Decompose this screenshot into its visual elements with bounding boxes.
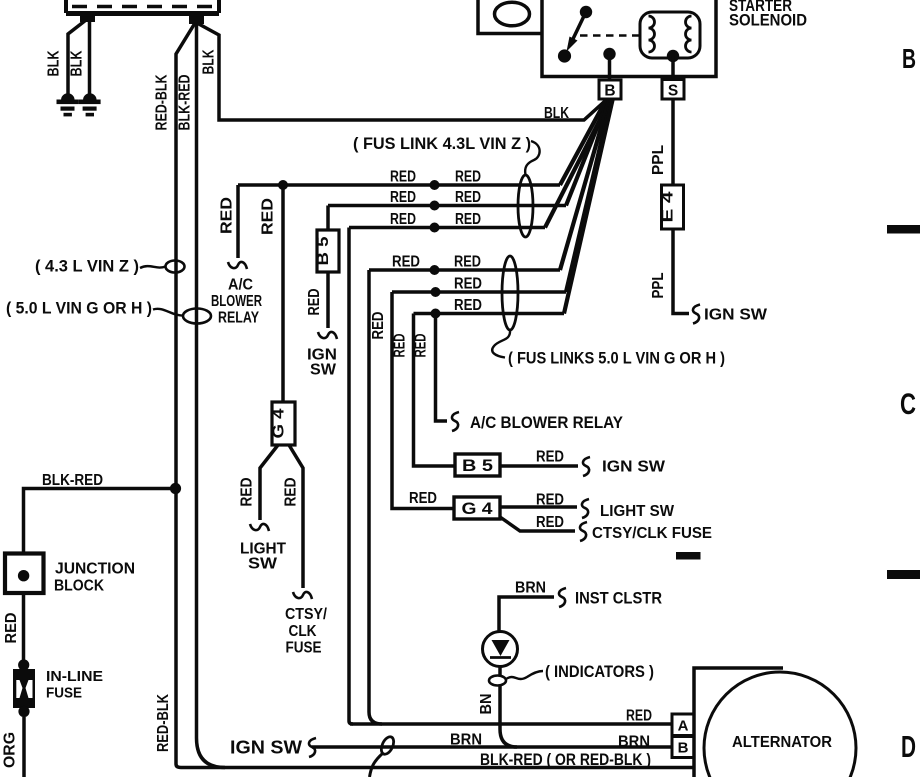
svg-text:( INDICATORS ): ( INDICATORS )	[545, 663, 654, 681]
fuse box G4 first	[272, 402, 295, 445]
battery terminal stub left	[80, 11, 95, 22]
svg-text:( FUS LINK 4.3L VIN Z ): ( FUS LINK 4.3L VIN Z )	[353, 134, 531, 153]
svg-text:RED: RED	[454, 297, 482, 314]
svg-text:RED: RED	[454, 254, 481, 271]
svg-text:( 5.0 L VIN G OR H ): ( 5.0 L VIN G OR H )	[6, 299, 152, 318]
wire RED bus to alternator A	[350, 722, 672, 726]
connector ctsy/clk fuse 1	[293, 592, 312, 599]
svg-text:BRN: BRN	[515, 580, 546, 597]
splice dot wire5	[431, 287, 441, 297]
wire BLK-RED (long vertical, curves to bottom bus)	[197, 24, 226, 768]
wire PPL E4 to IGN SW	[673, 229, 689, 314]
small oval on RED-BLK (4.3L VIN Z)	[166, 261, 185, 273]
right margin dash 2	[887, 570, 920, 579]
indicator connector oval	[498, 666, 502, 676]
svg-text:SW: SW	[248, 556, 278, 573]
wire G4 second to light sw	[500, 505, 577, 509]
svg-text:G 4: G 4	[462, 500, 494, 518]
fan wire B to wire 3	[545, 100, 610, 228]
indicator lamp bar	[490, 656, 511, 659]
connector ign sw 1	[318, 332, 337, 339]
svg-text:B: B	[902, 43, 916, 74]
svg-text:FUSE: FUSE	[46, 685, 82, 702]
connector A/C blower relay 1	[228, 262, 247, 269]
svg-text:IN-LINE: IN-LINE	[46, 668, 103, 685]
wire 5 vertical to G4 second	[392, 292, 454, 509]
solenoid switch contact lower	[558, 49, 571, 62]
splice dot wire1 left	[278, 180, 288, 190]
fuse E4 box	[662, 185, 684, 229]
loop connector tail	[370, 754, 383, 777]
wire 2 branch down to B5	[326, 206, 330, 231]
svg-text:CTSY/: CTSY/	[285, 606, 327, 623]
svg-text:A/C BLOWER RELAY: A/C BLOWER RELAY	[470, 414, 623, 432]
wire S pin to terminal	[671, 56, 675, 80]
svg-text:CLK: CLK	[289, 623, 317, 640]
svg-text:A/C: A/C	[228, 277, 253, 294]
svg-text:BLK-RED ( OR RED-BLK ): BLK-RED ( OR RED-BLK )	[480, 751, 651, 769]
wire 1 branch down to A/C blower relay	[236, 185, 240, 258]
alternator terminal A box	[672, 714, 694, 736]
svg-text:RED: RED	[455, 211, 481, 228]
wire RED 5	[392, 290, 566, 294]
svg-text:INST CLSTR: INST CLSTR	[575, 590, 662, 608]
svg-text:RED-BLK: RED-BLK	[155, 694, 172, 752]
fuse box G4 second	[454, 497, 500, 519]
svg-text:PPL: PPL	[650, 145, 667, 175]
line from (5.0L VIN G OR H) label	[153, 309, 183, 316]
in-line fuse	[13, 659, 35, 717]
svg-text:BLK-RED: BLK-RED	[177, 75, 194, 131]
svg-text:RED: RED	[306, 289, 323, 316]
wire RED junction block to in-line fuse	[22, 595, 26, 661]
svg-text:CTSY/CLK FUSE: CTSY/CLK FUSE	[592, 525, 712, 542]
wire G4 second to ctsy/clk fuse	[500, 517, 575, 531]
svg-text:BRN: BRN	[618, 734, 650, 751]
line from (4.3L VIN Z) label	[140, 266, 166, 268]
battery box (cut off at top)	[66, 0, 219, 14]
svg-text:SW: SW	[310, 362, 337, 379]
svg-text:S: S	[668, 83, 678, 100]
svg-text:RED: RED	[392, 254, 420, 271]
svg-text:BLK: BLK	[46, 50, 63, 76]
wire B pin to terminal	[608, 54, 612, 81]
svg-text:PPL: PPL	[650, 272, 667, 298]
connector A/C blower relay 2	[452, 412, 459, 431]
splice dot wire3	[430, 223, 440, 233]
squiggle to INDICATORS label	[506, 671, 543, 679]
svg-text:RED: RED	[413, 334, 430, 358]
svg-text:B 5: B 5	[462, 457, 493, 475]
svg-text:B: B	[604, 83, 615, 100]
svg-text:RED: RED	[390, 211, 416, 228]
svg-text:RED: RED	[239, 478, 256, 507]
loop connector on BRN wire	[379, 735, 396, 756]
connector ign sw 2	[583, 457, 590, 476]
svg-text:BLOCK: BLOCK	[54, 578, 105, 595]
ground G1	[57, 93, 79, 116]
wire G4 to ctsy/clk fuse	[289, 445, 303, 588]
ignition switch box	[478, 0, 542, 34]
svg-text:RED: RED	[392, 334, 409, 358]
connector ign sw ppl	[693, 305, 700, 324]
dash near ctsy/clk	[676, 552, 701, 560]
svg-text:E 4: E 4	[660, 191, 677, 223]
svg-text:BLK: BLK	[544, 105, 569, 122]
solenoid coil bottom dot	[667, 50, 679, 62]
right margin dash 1	[887, 225, 920, 234]
svg-text:RED: RED	[536, 449, 564, 466]
svg-text:B: B	[678, 740, 689, 757]
svg-text:RED: RED	[455, 169, 481, 186]
splice dot wire1	[430, 180, 440, 190]
junction dot on RED-BLK	[170, 483, 181, 494]
alternator circle	[704, 672, 856, 777]
solenoid B pin dot	[603, 48, 615, 60]
svg-text:RED: RED	[536, 514, 564, 531]
fuse box B5 first	[317, 230, 339, 272]
svg-text:SOLENOID: SOLENOID	[729, 12, 807, 30]
indicator lamp triangle	[492, 640, 510, 656]
svg-text:IGN SW: IGN SW	[230, 738, 302, 758]
svg-text:B 5: B 5	[315, 236, 332, 265]
solenoid switch contact upper	[580, 6, 592, 18]
svg-text:BRN: BRN	[450, 732, 482, 749]
svg-text:RED: RED	[3, 613, 20, 644]
wire 4 long vertical to alternator A bus	[369, 270, 382, 724]
alternator terminal B box	[672, 737, 694, 758]
connector light sw 1	[250, 524, 269, 531]
splice dot wire2	[430, 201, 440, 211]
solenoid dashed link	[580, 34, 640, 37]
wire RED 6	[414, 312, 565, 316]
splice dot wire6	[431, 309, 441, 319]
ground G2	[79, 93, 101, 116]
fan wire B to BLK	[584, 101, 606, 121]
svg-text:FUSE: FUSE	[286, 640, 322, 657]
wire 3 long vertical to alternator A bus	[349, 228, 353, 725]
svg-text:BN: BN	[478, 694, 495, 715]
wire RED 2	[328, 204, 566, 208]
wire BN lamp to BRN bus	[500, 685, 517, 747]
svg-text:IGN SW: IGN SW	[704, 307, 768, 324]
fan wire B to wire 4	[560, 100, 609, 270]
wire G4 to light sw	[260, 445, 278, 520]
wire ORG to bottom	[22, 717, 26, 777]
squiggle oval to label 5.0L	[492, 330, 510, 358]
indicator lamp circle	[483, 632, 518, 667]
squiggle label to oval 4.3L	[525, 141, 540, 175]
fusible link oval 5.0L	[502, 256, 518, 330]
svg-text:( 4.3 L VIN Z ): ( 4.3 L VIN Z )	[35, 257, 139, 276]
wire B5 second to ign sw	[500, 464, 578, 468]
wire PPL S to fuse E4	[671, 99, 675, 185]
wire BLK to ground 2	[88, 22, 92, 94]
svg-text:BLK: BLK	[69, 50, 86, 76]
svg-text:ALTERNATOR: ALTERNATOR	[732, 734, 832, 751]
solenoid coil	[640, 12, 700, 58]
svg-text:D: D	[901, 729, 916, 764]
fuse box B5 second	[455, 454, 500, 476]
connector ign sw bottom	[309, 738, 316, 757]
terminal S box	[662, 80, 684, 100]
svg-text:RED: RED	[283, 478, 300, 507]
svg-text:G 4: G 4	[271, 408, 288, 438]
svg-text:RED: RED	[536, 492, 564, 509]
svg-text:JUNCTION: JUNCTION	[55, 561, 135, 578]
fusible link oval 4.3L	[518, 175, 533, 237]
junction block dot	[18, 570, 29, 581]
svg-text:RED: RED	[390, 189, 416, 206]
wire BRN ign sw to alternator B	[312, 745, 672, 749]
wire BLK battery to solenoid B	[197, 23, 605, 120]
battery terminal stub right	[189, 11, 204, 24]
wire BLK to ground 1	[68, 20, 86, 94]
svg-text:BLK: BLK	[201, 49, 218, 74]
svg-text:RED: RED	[626, 708, 652, 725]
fan wire B to wire 2	[566, 100, 608, 206]
fan wire B to wire 5	[566, 100, 611, 292]
wire RED 4	[369, 268, 560, 272]
wire 6 splice stub to A/C blower relay 2	[436, 314, 448, 422]
svg-text:IGN SW: IGN SW	[602, 459, 666, 476]
svg-text:RED: RED	[219, 197, 236, 234]
oval on BLK-RED (5.0L VIN G OR H)	[183, 309, 211, 324]
svg-text:RELAY: RELAY	[218, 310, 259, 327]
svg-text:RED: RED	[454, 276, 482, 293]
wire branch to G4	[281, 185, 285, 402]
svg-text:RED: RED	[409, 490, 437, 507]
svg-text:BLOWER: BLOWER	[211, 293, 262, 310]
svg-text:( FUS LINKS 5.0 L VIN G OR H ): ( FUS LINKS 5.0 L VIN G OR H )	[508, 349, 725, 368]
svg-text:LIGHT SW: LIGHT SW	[600, 503, 675, 520]
wire B5 to ign sw	[326, 272, 330, 328]
wire RED 3	[349, 226, 545, 230]
svg-text:ORG: ORG	[2, 732, 19, 768]
wire 6 vertical to B5 second	[414, 314, 456, 467]
fan wire B to wire 1	[560, 100, 606, 185]
starter solenoid box	[542, 0, 716, 77]
svg-text:RED: RED	[370, 312, 387, 340]
connector light sw 2	[582, 499, 589, 518]
svg-text:RED: RED	[455, 189, 481, 206]
svg-text:BLK-RED: BLK-RED	[42, 472, 103, 489]
alternator box edge	[694, 668, 783, 777]
connector inst clstr	[559, 588, 566, 607]
terminal B box	[599, 80, 621, 99]
ignition switch circle	[495, 2, 530, 26]
splice dot wire4	[430, 265, 440, 275]
svg-text:C: C	[900, 388, 916, 421]
wire RED 1	[238, 183, 560, 187]
wire RED-BLK (long vertical, left)	[176, 23, 694, 768]
svg-text:RED-BLK: RED-BLK	[154, 74, 171, 130]
svg-text:A: A	[678, 718, 689, 735]
wire BLK-RED tap to junction block	[24, 489, 176, 552]
svg-text:RED: RED	[260, 198, 277, 235]
solenoid switch arm	[572, 17, 584, 41]
junction block	[5, 554, 44, 594]
fan wire B to wire 6	[564, 100, 613, 314]
svg-text:RED: RED	[390, 169, 416, 186]
wire BRN to inst clstr	[499, 597, 554, 632]
connector ctsy/clk fuse 2	[580, 522, 587, 541]
